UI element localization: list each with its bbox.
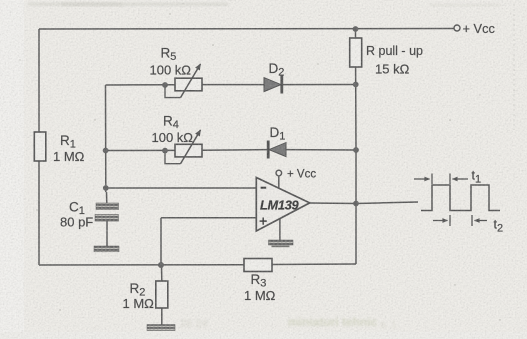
- wire C1 top lead: [106, 192, 108, 203]
- wire D2 cathode to right column: [282, 84, 356, 86]
- ghost bleed-through band top: [28, 2, 500, 7]
- wire R pull-up top lead: [355, 29, 357, 39]
- wire R pull-up bottom lead: [355, 67, 357, 85]
- faint right margin rule: [513, 4, 515, 130]
- wire R2 bottom lead: [161, 308, 163, 325]
- Vcc supply terminal: [454, 21, 495, 36]
- resistor R pull-up: [350, 38, 423, 77]
- node R2 top: [158, 262, 164, 268]
- wire mid vertical bus x=105: [105, 85, 107, 192]
- node output: [353, 201, 359, 207]
- node R4 left: [162, 148, 168, 154]
- wire op-amp ground lead: [279, 219, 281, 240]
- potentiometer R4: [152, 114, 203, 164]
- wire inverting input: [106, 187, 256, 189]
- waveform t2 measure marks: [433, 215, 487, 226]
- waveform square wave: [421, 185, 500, 211]
- wire left rail: [38, 29, 40, 265]
- node mid bus inverting input: [103, 185, 109, 191]
- wire output to waveform: [356, 202, 418, 204]
- waveform t1 measure marks: [414, 174, 468, 185]
- node mid bus R4 row: [103, 148, 109, 154]
- wire non-inverting input horizontal: [161, 217, 256, 219]
- wire R5 row left segment: [106, 84, 176, 86]
- wire bottom rail right of R3: [272, 263, 356, 266]
- wire bottom rail left of R3: [39, 264, 244, 266]
- resistor R2: [123, 281, 168, 311]
- potentiometer R5: [150, 46, 203, 98]
- ground below op-amp: [269, 240, 294, 247]
- wire R5 to D2 anode: [202, 84, 264, 86]
- diode D1: [268, 125, 286, 159]
- node D2 right: [353, 82, 359, 88]
- op-amp U1 LM139: [256, 178, 309, 232]
- wire R4 row left segment: [106, 149, 175, 151]
- wire top rail: [39, 28, 454, 31]
- wire D1 anode to right column: [286, 149, 356, 151]
- wire C1 to ground lead: [106, 221, 108, 247]
- resistor R3: [244, 259, 276, 304]
- ground below C1: [94, 246, 119, 252]
- capacitor C1: [60, 200, 119, 230]
- ground below R2: [147, 325, 175, 331]
- wire non-inverting vertical drop to bottom rail: [160, 218, 162, 265]
- op-amp Vcc terminal: [276, 169, 316, 181]
- wire right column D1 row to D2 row: [355, 85, 357, 151]
- ghost bleed-through text bottom: [92, 315, 399, 331]
- wire op-amp output to node: [309, 202, 356, 205]
- node top rail / pull-up: [353, 26, 359, 32]
- wire R2 top lead: [161, 265, 163, 281]
- node R5 left: [162, 82, 168, 88]
- wire R4 to D1 cathode: [202, 149, 268, 152]
- resistor R1: [34, 132, 84, 164]
- wire right column up from bottom to output node: [355, 204, 357, 265]
- wire right column output node to D1 row: [355, 150, 357, 204]
- node D1 right: [353, 147, 359, 153]
- wire op-amp Vcc lead: [278, 176, 280, 190]
- diode D2: [264, 61, 284, 94]
